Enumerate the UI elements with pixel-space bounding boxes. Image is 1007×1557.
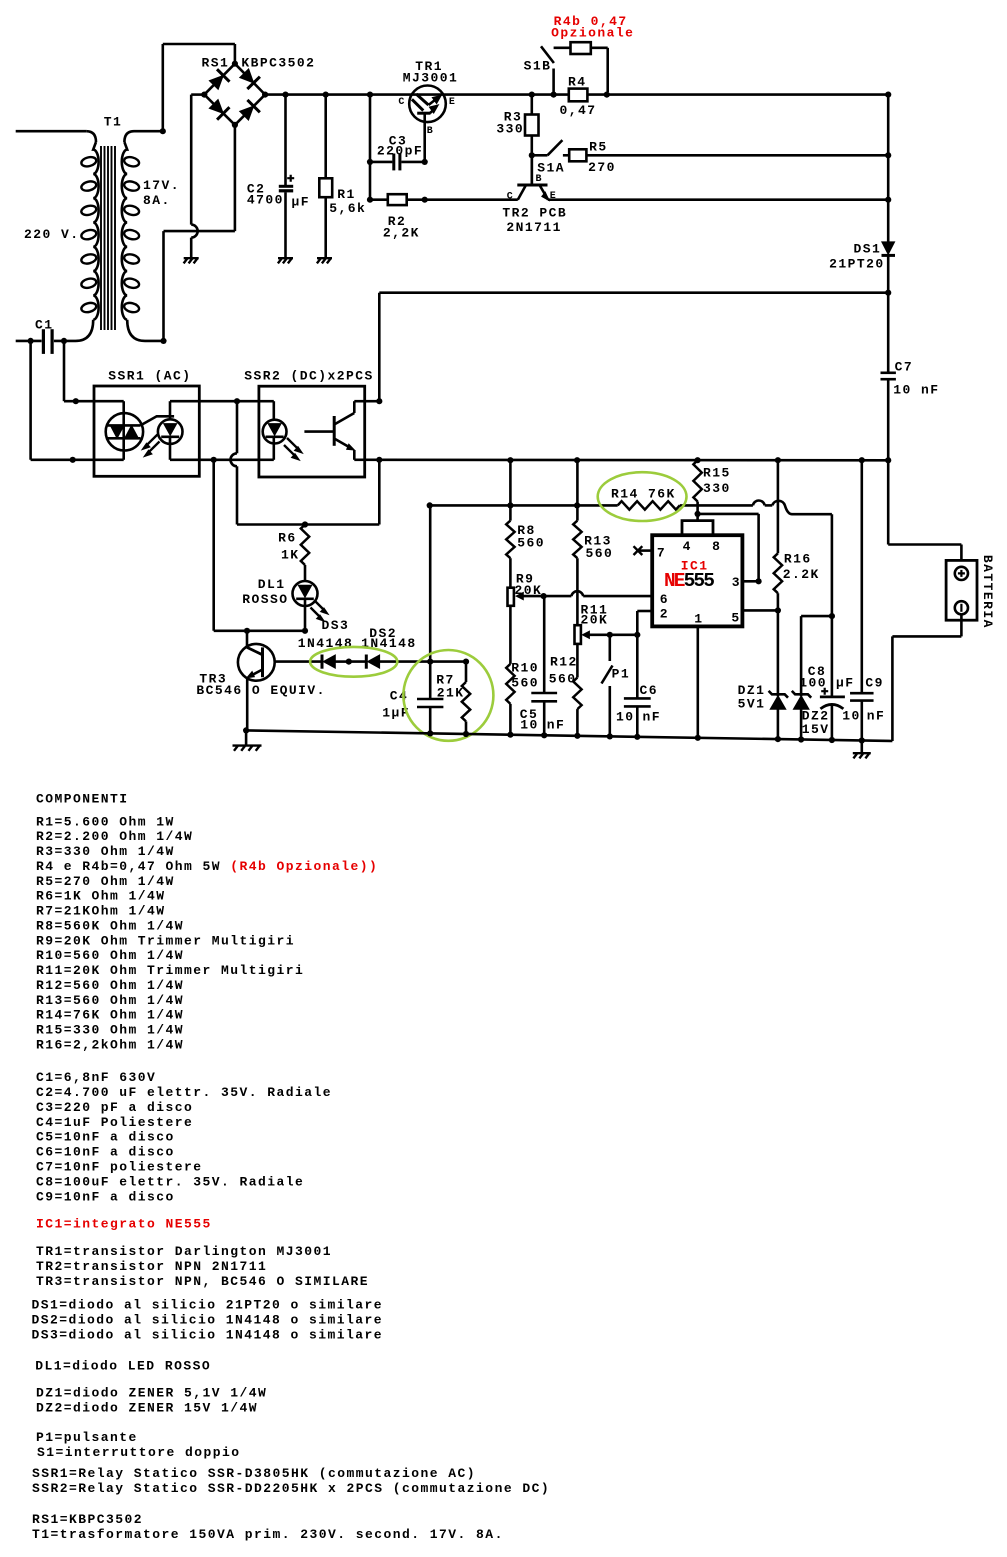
svg-text:DS3=diodo al silicio 1N4148 o: DS3=diodo al silicio 1N4148 o similare — [32, 1328, 384, 1343]
svg-text:R8=560K Ohm 1/4W: R8=560K Ohm 1/4W — [36, 918, 184, 933]
wire top rail of 555 section — [379, 458, 888, 461]
svg-text:2N1711: 2N1711 — [506, 220, 562, 235]
svg-text:R12=560 Ohm 1/4W: R12=560 Ohm 1/4W — [36, 978, 184, 993]
svg-text:DS1=diodo al silicio 21PT20 o: DS1=diodo al silicio 21PT20 o similare — [32, 1298, 384, 1313]
svg-text:P1: P1 — [612, 666, 631, 681]
svg-text:TR1=transistor Darlington MJ30: TR1=transistor Darlington MJ3001 — [36, 1244, 332, 1259]
wire SSR1 to SSR2 top — [199, 400, 259, 403]
svg-text:C3=220 pF a disco: C3=220 pF a disco — [36, 1100, 193, 1115]
switch S1B — [551, 92, 557, 98]
svg-text:560: 560 — [586, 546, 614, 561]
pushbutton P1 — [607, 632, 613, 638]
ground (bridge negative) — [184, 258, 199, 263]
svg-text:R3=330 Ohm 1/4W: R3=330 Ohm 1/4W — [36, 844, 175, 859]
SSR2 LED arrows — [287, 438, 300, 450]
capacitor C3 — [367, 159, 373, 165]
wire secondary bottom to bridge — [160, 338, 166, 344]
svg-text:C7: C7 — [895, 359, 914, 374]
svg-text:B: B — [427, 126, 434, 137]
resistor R1 — [323, 92, 329, 98]
capacitor C6 — [634, 632, 640, 638]
green circle around C4 R7 — [403, 650, 493, 741]
svg-text:R10=560 Ohm 1/4W: R10=560 Ohm 1/4W — [36, 948, 184, 963]
svg-text:C2=4.700 uF elettr. 35V. Radia: C2=4.700 uF elettr. 35V. Radiale — [36, 1085, 332, 1100]
svg-text:E: E — [550, 191, 557, 202]
svg-text:2,2K: 2,2K — [383, 226, 420, 241]
svg-text:NE555: NE555 — [664, 570, 714, 592]
svg-text:C: C — [398, 97, 405, 108]
wire wire-1 left vertical — [427, 502, 433, 508]
svg-text:T1=trasformatore 150VA prim. 2: T1=trasformatore 150VA prim. 230V. secon… — [32, 1527, 504, 1542]
wire battery positive — [885, 457, 891, 463]
svg-text:330: 330 — [496, 121, 524, 136]
svg-text:T1: T1 — [104, 114, 123, 129]
svg-text:BC546 O EQUIV.: BC546 O EQUIV. — [196, 683, 326, 698]
svg-text:3: 3 — [732, 575, 741, 590]
resistor R4b (optional) — [554, 46, 571, 49]
svg-text:21K: 21K — [437, 685, 465, 700]
svg-text:DS3: DS3 — [322, 618, 350, 633]
trimmer R9 (20K) — [508, 588, 514, 606]
svg-text:1N4148: 1N4148 — [298, 636, 354, 651]
svg-text:R1=5.600 Ohm 1W: R1=5.600 Ohm 1W — [36, 814, 175, 829]
bridge diode L-B — [209, 99, 223, 113]
wire SSR1 bottom to TR3 junction — [212, 460, 215, 631]
SSR2 LED — [259, 400, 274, 403]
wire pin1 — [696, 626, 699, 737]
svg-text:IC1=integrato NE555: IC1=integrato NE555 — [36, 1217, 212, 1232]
svg-text:TR2 PCB: TR2 PCB — [502, 206, 567, 221]
svg-text:TR2=transistor NPN 2N1711: TR2=transistor NPN 2N1711 — [36, 1259, 267, 1274]
svg-text:C6=10nF a disco: C6=10nF a disco — [36, 1145, 175, 1160]
capacitor C9 — [859, 457, 865, 463]
svg-text:17V.: 17V. — [143, 178, 180, 193]
svg-text:10: 10 — [616, 709, 635, 724]
transformer T1 — [86, 131, 96, 142]
trimmer R11 (20K) — [575, 625, 581, 644]
battery - terminal — [955, 601, 968, 614]
svg-text:SSR1=Relay Statico SSR-D3805HK: SSR1=Relay Statico SSR-D3805HK (commutaz… — [32, 1466, 476, 1481]
bridge diode L-T — [209, 75, 223, 89]
svg-text:DS1: DS1 — [854, 242, 882, 257]
svg-text:P1=pulsante: P1=pulsante — [36, 1430, 138, 1445]
svg-text:SSR1 (AC): SSR1 (AC) — [108, 369, 191, 384]
svg-text:R4: R4 — [568, 74, 587, 89]
svg-text:Opzionale: Opzionale — [551, 26, 634, 41]
svg-text:C9: C9 — [865, 676, 884, 691]
resistor R12 (560) — [573, 678, 581, 710]
wire secondary top to bridge — [160, 128, 166, 134]
svg-text:5: 5 — [731, 610, 740, 625]
svg-text:R14 76K: R14 76K — [611, 487, 676, 502]
pin7 X mark — [639, 549, 653, 552]
svg-text:R14=76K Ohm 1/4W: R14=76K Ohm 1/4W — [36, 1008, 184, 1023]
resistor R10 (560) — [506, 664, 514, 704]
node: C1 right junction — [61, 338, 67, 344]
resistor R6 — [301, 525, 309, 566]
svg-text:µF: µF — [836, 676, 855, 691]
svg-text:10 nF: 10 nF — [893, 382, 939, 397]
wire pin2 — [637, 610, 652, 613]
svg-text:220pF: 220pF — [377, 143, 423, 158]
svg-text:nF: nF — [547, 718, 566, 733]
svg-text:100: 100 — [799, 676, 827, 691]
resistor R2 — [367, 197, 373, 203]
bridge diode T-R — [240, 69, 254, 83]
svg-text:R7=21KOhm 1/4W: R7=21KOhm 1/4W — [36, 904, 166, 919]
svg-text:C9=10nF a disco: C9=10nF a disco — [36, 1189, 175, 1204]
ground (R1) — [317, 258, 332, 263]
svg-text:4700: 4700 — [247, 192, 284, 207]
svg-text:R5=270 Ohm 1/4W: R5=270 Ohm 1/4W — [36, 874, 175, 889]
svg-text:R6: R6 — [278, 531, 297, 546]
svg-text:R5: R5 — [589, 140, 608, 155]
SSR2 phototransistor — [304, 430, 334, 433]
svg-text:C1: C1 — [35, 318, 54, 333]
svg-text:MJ3001: MJ3001 — [403, 71, 459, 86]
resistor R3 — [529, 92, 535, 98]
svg-text:330: 330 — [703, 481, 731, 496]
wire SSR1 to SSR2 bottom — [199, 458, 259, 461]
wire tab feed — [696, 502, 699, 521]
switch S1A — [529, 152, 535, 158]
capacitor C4 — [429, 662, 432, 699]
svg-text:1: 1 — [694, 611, 703, 626]
bridge rectifier RS1 — [204, 64, 235, 95]
svg-text:R2=2.200 Ohm 1/4W: R2=2.200 Ohm 1/4W — [36, 829, 193, 844]
svg-text:C8=100uF elettr. 35V. Radiale: C8=100uF elettr. 35V. Radiale — [36, 1174, 304, 1189]
svg-text:560: 560 — [517, 535, 545, 550]
svg-text:R6=1K Ohm 1/4W: R6=1K Ohm 1/4W — [36, 889, 166, 904]
resistor R8 (560K) — [507, 457, 513, 463]
svg-text:nF: nF — [643, 709, 662, 724]
svg-text:15V: 15V — [802, 722, 830, 737]
resistor R4 — [569, 89, 588, 102]
svg-text:2.2K: 2.2K — [783, 567, 820, 582]
wire hop vertical at x237 — [236, 401, 239, 453]
svg-text:R11=20K Ohm Trimmer Multigiri: R11=20K Ohm Trimmer Multigiri — [36, 963, 304, 978]
capacitor C1 — [16, 340, 42, 343]
svg-text:C1=6,8nF 630V: C1=6,8nF 630V — [36, 1070, 156, 1085]
ground (C2) — [278, 258, 293, 263]
svg-text:µF: µF — [292, 195, 311, 210]
svg-text:B: B — [536, 174, 543, 185]
capacitor C7 — [881, 371, 896, 374]
wire SSR2 feed vertical — [378, 293, 381, 402]
svg-text:R1: R1 — [337, 187, 356, 202]
svg-text:KBPC3502: KBPC3502 — [241, 56, 315, 71]
svg-text:SSR2 (DC)x2PCS: SSR2 (DC)x2PCS — [244, 369, 374, 384]
svg-text:220 V.: 220 V. — [24, 227, 80, 242]
svg-text:C5=10nF a disco: C5=10nF a disco — [36, 1130, 175, 1145]
svg-text:R10: R10 — [511, 661, 539, 676]
svg-text:nF: nF — [867, 709, 886, 724]
svg-text:DL1=diodo LED ROSSO: DL1=diodo LED ROSSO — [35, 1359, 211, 1374]
svg-text:8A.: 8A. — [143, 193, 171, 208]
svg-text:DZ2=diodo ZENER 15V 1/4W: DZ2=diodo ZENER 15V 1/4W — [36, 1400, 258, 1415]
wire-1 horizontal (R14 row) — [430, 504, 618, 507]
svg-text:20K: 20K — [515, 583, 543, 598]
svg-text:DL1: DL1 — [258, 577, 286, 592]
svg-text:BATTERIA: BATTERIA — [980, 555, 995, 629]
svg-text:0,47: 0,47 — [560, 103, 597, 118]
bridge diode B-R — [240, 106, 254, 120]
svg-text:TR3=transistor NPN, BC546 O SI: TR3=transistor NPN, BC546 O SIMILARE — [36, 1274, 369, 1289]
svg-text:R13=560 Ohm 1/4W: R13=560 Ohm 1/4W — [36, 993, 184, 1008]
wire C1-left branch down to SSR1 — [29, 341, 32, 460]
svg-text:20K: 20K — [581, 612, 609, 627]
svg-text:6: 6 — [660, 592, 669, 607]
svg-text:R16=2,2kOhm 1/4W: R16=2,2kOhm 1/4W — [36, 1037, 184, 1052]
svg-text:8: 8 — [712, 539, 721, 554]
wire +V rail top — [265, 93, 553, 96]
svg-text:R9=20K Ohm Trimmer Multigiri: R9=20K Ohm Trimmer Multigiri — [36, 933, 295, 948]
svg-text:560: 560 — [549, 672, 577, 687]
capacitor C2 — [282, 92, 288, 98]
SSR1 LED arrows — [145, 435, 158, 447]
svg-text:21PT20: 21PT20 — [829, 257, 885, 272]
node rail right corner — [885, 92, 891, 98]
svg-text:4: 4 — [683, 539, 692, 554]
wire DS1 junction to SSR2 feed — [379, 291, 888, 294]
wire-2 pin3 route — [698, 513, 759, 516]
DL1 arrows — [315, 601, 326, 612]
node: C1 left junction — [28, 338, 34, 344]
diode DS3 (1N4148) — [321, 655, 324, 669]
svg-text:C4=1uF Poliestere: C4=1uF Poliestere — [36, 1115, 193, 1130]
SSR1 LED — [170, 400, 199, 403]
svg-text:C7=10nF poliestere: C7=10nF poliestere — [36, 1160, 203, 1175]
wire pin6 into box — [651, 595, 654, 598]
transistor TR3 (BC546) — [246, 631, 249, 648]
wire bridge negative to ground with hop — [191, 93, 204, 96]
capacitor C8 (100uF) — [831, 616, 834, 697]
svg-text:DS2=diodo al silicio 1N4148 o: DS2=diodo al silicio 1N4148 o similare — [32, 1313, 384, 1328]
svg-text:2: 2 — [660, 607, 669, 622]
node DS1 bottom — [885, 290, 891, 296]
NE555 top tab — [682, 521, 713, 536]
SSR1 triac — [94, 400, 124, 403]
wire right vertical (battery +) — [887, 95, 890, 242]
diode DS1 (21PT20) — [882, 242, 895, 255]
wire SSR2 right exits — [365, 400, 380, 403]
svg-text:DZ1=diodo ZENER 5,1V 1/4W: DZ1=diodo ZENER 5,1V 1/4W — [36, 1385, 267, 1400]
svg-text:5V1: 5V1 — [738, 697, 766, 712]
svg-text:R16: R16 — [784, 551, 812, 566]
svg-text:C6: C6 — [640, 683, 659, 698]
capacitor C5 — [543, 596, 546, 693]
svg-text:RS1: RS1 — [202, 56, 230, 71]
relay SSR1 box — [94, 386, 199, 476]
green ellipse around R14 — [598, 472, 687, 521]
svg-text:E: E — [449, 97, 456, 108]
svg-text:10: 10 — [842, 709, 861, 724]
svg-text:7: 7 — [657, 545, 666, 560]
svg-text:5,6k: 5,6k — [329, 201, 366, 216]
svg-text:270: 270 — [588, 160, 616, 175]
wire pin5 — [742, 609, 778, 612]
battery + terminal — [955, 567, 968, 580]
wire C3/R2 left column — [367, 92, 373, 98]
wire-1 hops over pin3 and R16 verticals — [753, 500, 765, 505]
IC1 NE555 box — [652, 535, 742, 626]
svg-text:1K: 1K — [281, 548, 300, 563]
svg-text:R12: R12 — [550, 655, 578, 670]
relay SSR2 box — [259, 386, 365, 477]
resistor R13 (560) — [574, 457, 580, 463]
zener DZ2 (15V) — [800, 616, 803, 696]
ground (TR3) — [243, 727, 249, 733]
svg-text:RS1=KBPC3502: RS1=KBPC3502 — [32, 1512, 143, 1527]
zener DZ1 (5V1) — [777, 610, 780, 696]
transistor TR2 (2N1711) — [530, 155, 533, 185]
svg-text:R15: R15 — [703, 465, 731, 480]
resistor R7 — [430, 660, 466, 663]
svg-text:R4 e R4b=0,47 Ohm 5W (R4b Opz: R4 e R4b=0,47 Ohm 5W (R4b Opzionale)) — [36, 859, 378, 874]
resistor R14 (76K) — [618, 501, 680, 509]
wire TR2 emitter to right rail — [548, 198, 888, 201]
battery box — [946, 560, 977, 620]
svg-text:R15=330 Ohm 1/4W: R15=330 Ohm 1/4W — [36, 1023, 184, 1038]
wire pin6 with hop over R13 column — [544, 595, 572, 598]
transistor TR1 (Darlington MJ3001) — [409, 86, 446, 123]
svg-text:C4: C4 — [390, 688, 409, 703]
bottom ground rail (sloped) — [246, 730, 892, 741]
ground (C9) — [860, 741, 863, 754]
wire C8 feed — [831, 514, 834, 616]
svg-text:SSR2=Relay Statico SSR-DD2205H: SSR2=Relay Statico SSR-DD2205HK x 2PCS (… — [32, 1481, 550, 1496]
wire battery negative — [960, 614, 963, 636]
LED DL1 — [293, 581, 318, 606]
green ellipse around DS3 DS2 — [310, 647, 397, 677]
svg-text:S1=interruttore doppio: S1=interruttore doppio — [37, 1445, 241, 1460]
wire R6 feed loop — [237, 523, 379, 526]
wire mains top input — [16, 130, 87, 133]
resistor R16 (2.2K) — [775, 457, 781, 463]
wire TR1 base — [423, 113, 426, 162]
svg-text:10: 10 — [520, 718, 539, 733]
diode DS2 (1N4148) — [365, 655, 368, 669]
svg-text:C: C — [507, 192, 514, 203]
svg-text:S1B: S1B — [524, 59, 552, 74]
resistor R5 — [563, 154, 569, 157]
wire C1-right branch down to SSR1 — [63, 341, 66, 401]
resistor R15 (330) — [695, 457, 701, 463]
svg-text:560: 560 — [511, 676, 539, 691]
svg-text:ROSSO: ROSSO — [242, 592, 288, 607]
svg-text:COMPONENTI: COMPONENTI — [36, 791, 129, 806]
